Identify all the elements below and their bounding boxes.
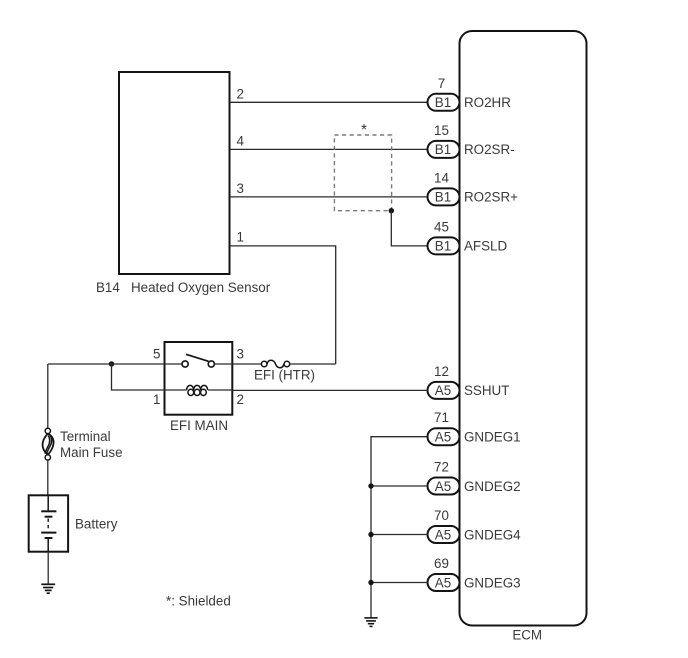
- svg-text:71: 71: [434, 410, 449, 425]
- wire Terminal Main Fuse to battery: [47, 460, 49, 495]
- fuse EFI (HTR) F1: [232, 360, 335, 368]
- shield (dashed) around RO2SR- / RO2SR+ wires: [334, 135, 391, 211]
- svg-text:B1: B1: [435, 142, 451, 157]
- wire ground bus to ECM GNDEG2: [371, 485, 428, 487]
- junction ground bus / GNDEG3: [368, 580, 373, 585]
- svg-text:70: 70: [434, 508, 449, 523]
- wire junction down to relay pin1: [112, 364, 165, 390]
- svg-text:GNDEG1: GNDEG1: [464, 430, 521, 445]
- svg-text:A5: A5: [435, 430, 451, 445]
- svg-text:69: 69: [434, 556, 449, 571]
- junction ground bus / GNDEG4: [368, 532, 373, 537]
- svg-text:15: 15: [434, 123, 449, 138]
- svg-text:RO2SR-: RO2SR-: [464, 142, 515, 157]
- svg-text:B1: B1: [435, 190, 451, 205]
- wire ground bus to ECM GNDEG3: [371, 582, 428, 584]
- svg-text:2: 2: [237, 392, 244, 407]
- connector pin A5-71 (GNDEG1): [428, 428, 460, 445]
- ground (ECM GNDEG bus): [364, 618, 377, 627]
- connector pin B1-15 (RO2SR-): [428, 141, 460, 158]
- wire relay coil to pin2 stub: [208, 389, 232, 391]
- wire battery feed to relay pin5: [48, 363, 165, 365]
- svg-text:RO2SR+: RO2SR+: [464, 190, 518, 205]
- svg-text:12: 12: [434, 364, 449, 379]
- svg-text:1: 1: [237, 229, 244, 244]
- relay EFI MAIN body: [165, 342, 233, 415]
- svg-text:EFI (HTR): EFI (HTR): [254, 368, 315, 383]
- svg-text:ECM: ECM: [512, 627, 542, 642]
- sensor B14 Heated Oxygen Sensor body: [119, 72, 230, 274]
- ground (battery negative): [41, 584, 55, 593]
- svg-text:*: Shielded: *: Shielded: [166, 593, 231, 608]
- battery BT1 body: [29, 495, 68, 551]
- svg-text:14: 14: [434, 170, 449, 185]
- svg-text:GNDEG4: GNDEG4: [464, 527, 521, 542]
- svg-text:B14 Heated Oxygen Sensor: B14 Heated Oxygen Sensor: [96, 280, 271, 295]
- svg-text:A5: A5: [435, 527, 451, 542]
- battery BT1 cell symbol: [41, 495, 56, 551]
- svg-text:Terminal: Terminal: [60, 429, 111, 444]
- svg-text:2: 2: [237, 86, 244, 101]
- svg-text:EFI MAIN: EFI MAIN: [170, 418, 228, 433]
- fusible link Terminal Main Fuse F2: [43, 428, 54, 460]
- junction shield drain node: [389, 208, 394, 213]
- junction ground bus / GNDEG2: [368, 483, 373, 488]
- wire shield drain to ECM AFSLD: [391, 211, 427, 246]
- svg-text:45: 45: [434, 219, 449, 234]
- svg-text:B1: B1: [435, 239, 451, 254]
- wire B14 pin1 down to EFI(HTR) fuse output: [230, 246, 336, 364]
- svg-text:Main Fuse: Main Fuse: [60, 445, 123, 460]
- wire ground bus to ECM GNDEG4: [371, 534, 428, 536]
- junction battery feed / relay pins 5 and 1: [109, 361, 114, 366]
- svg-text:7: 7: [438, 76, 445, 91]
- wire relay pin2 to ECM SSHUT: [232, 389, 427, 391]
- connector pin B1-7 (RO2HR): [428, 94, 460, 111]
- relay coil L1: [187, 385, 208, 395]
- connector pin B1-14 (RO2SR+): [428, 188, 460, 205]
- svg-text:A5: A5: [435, 479, 451, 494]
- ECM connector body U1: [460, 31, 587, 626]
- wire relay pin1 stub to coil: [165, 389, 187, 391]
- svg-text:72: 72: [434, 460, 449, 475]
- wire battery feed down to Terminal Main Fuse: [47, 364, 49, 428]
- connector pin A5-70 (GNDEG4): [428, 526, 460, 543]
- svg-text:5: 5: [153, 346, 160, 361]
- svg-text:*: *: [361, 122, 367, 139]
- wire B14 pin3 to ECM RO2SR+: [230, 196, 428, 198]
- svg-text:RO2HR: RO2HR: [464, 95, 511, 110]
- wire battery negative to ground: [47, 552, 49, 585]
- connector pin A5-69 (GNDEG3): [428, 574, 460, 591]
- connector pin A5-12 (SSHUT): [428, 382, 460, 399]
- svg-text:A5: A5: [435, 383, 451, 398]
- connector pin A5-72 (GNDEG2): [428, 478, 460, 495]
- svg-text:GNDEG3: GNDEG3: [464, 575, 521, 590]
- wire B14 pin2 to ECM RO2HR: [230, 101, 428, 103]
- svg-text:3: 3: [237, 181, 244, 196]
- connector pin B1-45 (AFSLD): [428, 237, 460, 254]
- wire relay contact to pin3 stub: [214, 363, 232, 365]
- svg-text:AFSLD: AFSLD: [464, 239, 507, 254]
- relay switch contact right: [208, 361, 214, 367]
- relay switch arm (open): [186, 354, 209, 361]
- svg-text:3: 3: [237, 346, 244, 361]
- wire ECM GNDEG1 to ground bus: [371, 437, 428, 618]
- svg-text:A5: A5: [435, 575, 451, 590]
- svg-text:Battery: Battery: [75, 517, 118, 532]
- svg-text:1: 1: [153, 392, 160, 407]
- wire relay pin5 stub to contact: [165, 363, 183, 365]
- relay switch contact left: [182, 361, 188, 367]
- svg-text:B1: B1: [435, 95, 451, 110]
- svg-text:4: 4: [237, 133, 245, 148]
- wire B14 pin4 to ECM RO2SR-: [230, 148, 428, 150]
- svg-text:SSHUT: SSHUT: [464, 383, 509, 398]
- svg-text:GNDEG2: GNDEG2: [464, 479, 521, 494]
